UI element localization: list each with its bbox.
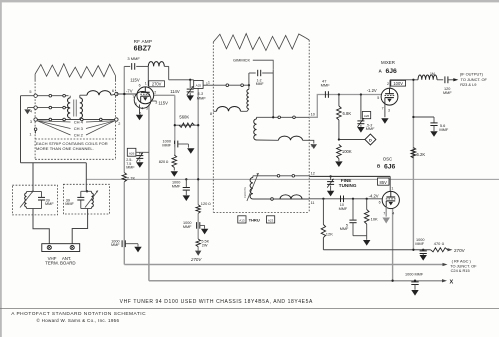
svg-text:8: 8: [210, 112, 212, 116]
svg-text:6.8K: 6.8K: [343, 111, 352, 116]
svg-text:7: 7: [383, 212, 385, 216]
svg-text:115V: 115V: [158, 100, 168, 105]
svg-text:MMF: MMF: [65, 202, 74, 206]
svg-text:D: D: [369, 137, 372, 142]
svg-text:3: 3: [30, 120, 32, 124]
svg-text:MORE THAN ONE CHANNEL.: MORE THAN ONE CHANNEL.: [36, 146, 94, 151]
svg-text:CH 3: CH 3: [74, 126, 84, 131]
svg-text:6: 6: [379, 201, 381, 205]
svg-text:R23 & L9: R23 & L9: [460, 82, 476, 87]
svg-text:MMF: MMF: [126, 166, 135, 170]
svg-text:4: 4: [392, 212, 394, 216]
svg-text:2.7K: 2.7K: [127, 175, 136, 180]
svg-text:114V: 114V: [170, 89, 180, 94]
svg-text:2: 2: [154, 90, 156, 94]
svg-text:OSC: OSC: [383, 157, 393, 162]
svg-text:5: 5: [146, 107, 148, 111]
svg-text:TUNING: TUNING: [339, 183, 357, 188]
svg-text:120: 120: [201, 201, 208, 206]
svg-text:10K: 10K: [371, 216, 378, 221]
svg-text:11: 11: [311, 201, 315, 205]
svg-text:A25: A25: [196, 84, 202, 88]
svg-text:115V: 115V: [130, 77, 140, 82]
svg-text:4: 4: [30, 109, 32, 113]
svg-text:MMF: MMF: [321, 83, 331, 88]
svg-text:2: 2: [118, 122, 120, 126]
svg-text:2W: 2W: [202, 243, 208, 247]
svg-text:5: 5: [377, 96, 379, 100]
svg-text:MMF: MMF: [366, 127, 375, 131]
svg-text:1: 1: [29, 133, 31, 137]
svg-text:470: 470: [434, 241, 441, 246]
svg-text:BOARD: BOARD: [60, 260, 76, 265]
svg-text:MMF: MMF: [111, 243, 120, 247]
svg-text:6: 6: [139, 84, 141, 88]
svg-text:85V: 85V: [380, 180, 388, 185]
svg-text:6.2K: 6.2K: [417, 152, 426, 157]
svg-text:6BZ7: 6BZ7: [134, 46, 152, 53]
svg-text:12K: 12K: [326, 231, 333, 236]
svg-text:3 MMF: 3 MMF: [127, 56, 140, 61]
svg-text:C24 & R15: C24 & R15: [451, 268, 470, 273]
svg-text:MMF: MMF: [340, 227, 349, 231]
svg-text:6J6: 6J6: [384, 163, 396, 170]
svg-text:MMF: MMF: [256, 82, 264, 86]
svg-text:-7V: -7V: [126, 89, 133, 94]
svg-text:RF AMP: RF AMP: [134, 39, 153, 44]
svg-text:270V: 270V: [190, 257, 202, 262]
svg-text:MMF: MMF: [162, 143, 171, 147]
svg-text:MMF: MMF: [439, 127, 448, 132]
svg-text:THRU: THRU: [249, 218, 260, 223]
svg-text:1: 1: [145, 81, 147, 85]
svg-text:MMF: MMF: [183, 225, 192, 229]
svg-text:Ω: Ω: [166, 160, 169, 164]
svg-text:Ω: Ω: [442, 242, 445, 246]
svg-text:1: 1: [391, 186, 393, 190]
svg-text:100V: 100V: [393, 81, 403, 86]
svg-text:7: 7: [132, 95, 134, 99]
svg-text:6J6: 6J6: [386, 68, 398, 75]
svg-text:VHF TUNER 94 D100 USED WITH CH: VHF TUNER 94 D100 USED WITH CHASSIS 18Y4…: [120, 299, 313, 305]
svg-text:-4.2V: -4.2V: [369, 194, 379, 199]
svg-text:GIMMICK: GIMMICK: [233, 58, 250, 63]
svg-text:CH 2: CH 2: [74, 133, 84, 138]
svg-text:MIXER: MIXER: [381, 60, 395, 65]
svg-text:MMF: MMF: [339, 207, 348, 211]
svg-text:5: 5: [29, 90, 31, 94]
svg-text:-1.2V: -1.2V: [367, 88, 377, 93]
svg-text:100K: 100K: [342, 149, 352, 154]
svg-text:MMF: MMF: [443, 91, 452, 95]
svg-text:8: 8: [135, 102, 137, 106]
svg-text:270V: 270V: [454, 248, 466, 253]
svg-text:A23: A23: [268, 218, 274, 222]
svg-text:A PHOTOFACT STANDARD NOTATION: A PHOTOFACT STANDARD NOTATION SCHEMATIC: [11, 311, 146, 317]
svg-text:10: 10: [311, 112, 315, 116]
svg-text:MMF: MMF: [197, 96, 206, 101]
svg-text:A26: A26: [364, 114, 370, 118]
svg-text:A13: A13: [239, 218, 245, 222]
svg-text:X: X: [450, 279, 454, 285]
svg-text:270V: 270V: [152, 82, 162, 87]
svg-text:560K: 560K: [179, 114, 189, 119]
svg-text:1M: 1M: [430, 72, 435, 76]
svg-text:(IF OUTPUT): (IF OUTPUT): [460, 72, 484, 77]
svg-text:12: 12: [311, 171, 315, 175]
svg-text:6: 6: [112, 89, 114, 93]
svg-text:MMF: MMF: [172, 184, 181, 188]
svg-text:© Howard W. Sams & Co., Inc. 1: © Howard W. Sams & Co., Inc. 1956: [37, 317, 120, 323]
svg-text:A26: A26: [129, 151, 135, 155]
svg-text:4: 4: [141, 107, 143, 111]
svg-text:MMF: MMF: [415, 242, 424, 246]
svg-text:Ω: Ω: [208, 202, 211, 206]
svg-text:TERM.: TERM.: [45, 260, 59, 265]
svg-text:3: 3: [388, 109, 390, 113]
svg-text:1000 MMF: 1000 MMF: [405, 272, 424, 276]
svg-text:2: 2: [387, 82, 389, 86]
svg-text:7: 7: [382, 107, 384, 111]
svg-text:1: 1: [206, 82, 208, 86]
svg-text:1: 1: [208, 81, 210, 85]
svg-text:MMF: MMF: [45, 202, 54, 206]
svg-text:CH 4: CH 4: [74, 120, 84, 125]
svg-text:FERRITE: FERRITE: [243, 187, 247, 198]
